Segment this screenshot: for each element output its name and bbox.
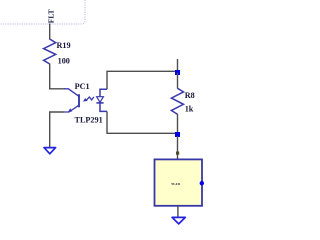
resistor R19 — [44, 39, 56, 64]
svg-text:R19: R19 — [57, 41, 71, 50]
junction — [175, 70, 180, 75]
optocoupler PC1 light arrow — [83, 97, 94, 102]
ground — [44, 148, 56, 154]
wire — [177, 73, 179, 89]
wire — [177, 59, 179, 71]
dashed block boundary — [0, 0, 85, 24]
wire — [177, 136, 179, 160]
ground — [172, 217, 185, 224]
port pin — [200, 181, 204, 185]
wire — [50, 112, 64, 147]
svg-text:PC1: PC1 — [75, 82, 90, 91]
svg-text:TL431: TL431 — [171, 182, 181, 186]
svg-text:100: 100 — [58, 56, 70, 65]
wire — [50, 64, 65, 89]
junction — [175, 132, 180, 137]
pin dot — [176, 152, 179, 155]
svg-text:1k: 1k — [185, 105, 194, 114]
wire — [107, 111, 178, 133]
wire — [49, 24, 51, 40]
resistor R8 — [171, 88, 183, 114]
wire — [177, 114, 179, 134]
svg-text:R8: R8 — [185, 91, 195, 100]
optocoupler PC1 transistor side — [64, 89, 79, 113]
hierarchical block U1 TL431 — [155, 159, 203, 205]
svg-text:FLT: FLT — [47, 9, 56, 23]
wire — [177, 206, 179, 218]
optocoupler PC1 LED side — [96, 89, 107, 111]
svg-text:TLP291: TLP291 — [75, 116, 103, 125]
wire — [107, 71, 178, 89]
